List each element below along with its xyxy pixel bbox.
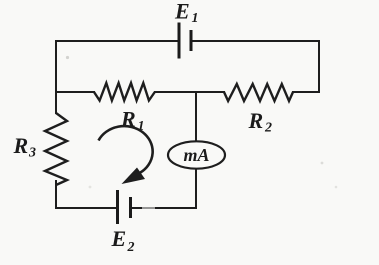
noise speck [335, 186, 338, 189]
svg-text:R: R [248, 108, 264, 133]
svg-text:2: 2 [264, 121, 272, 136]
noise speck [66, 56, 69, 59]
svg-text:3: 3 [28, 146, 36, 161]
svg-text:R: R [13, 133, 29, 158]
resistor R1 [94, 83, 155, 101]
wire right vertical [318, 41, 320, 92]
wire mA lower [195, 169, 197, 209]
battery E2 [118, 190, 131, 224]
wire row2 right [293, 91, 319, 93]
svg-text:1: 1 [192, 11, 199, 26]
wire left vertical upper [55, 41, 57, 113]
wire fade artifact on bottom wire [142, 206, 155, 211]
battery E1 [179, 23, 191, 59]
resistor R2 [224, 84, 293, 101]
svg-text:E: E [174, 0, 190, 24]
wire top-left segment [56, 40, 178, 42]
wire bottom-right segment [131, 207, 196, 209]
wire left vertical lower [55, 181, 57, 208]
wire row2 left [56, 91, 94, 93]
milliammeter mA [168, 141, 225, 168]
wire bottom-left segment [56, 207, 117, 209]
wire mA upper [195, 92, 197, 142]
loop arrow [99, 126, 153, 173]
svg-text:2: 2 [127, 240, 135, 255]
wire top-right segment [192, 40, 319, 42]
noise speck [89, 186, 92, 189]
noise speck [321, 162, 324, 165]
svg-text:E: E [111, 226, 127, 251]
resistor R3 [45, 113, 67, 185]
wire row2 middle [155, 91, 224, 93]
svg-text:mA: mA [183, 145, 209, 165]
